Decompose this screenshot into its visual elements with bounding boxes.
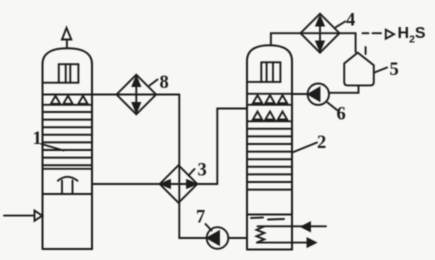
H2S outlet arrow: [386, 30, 394, 39]
column 2 tray triangles row 2: [247, 112, 292, 122]
reboiler condensate tube out: [257, 242, 308, 244]
column 1 shell (absorber): [43, 48, 93, 249]
separator bottom outlet: [329, 85, 359, 92]
svg-text:8: 8: [160, 73, 169, 93]
column 1 vent arrow: [62, 28, 71, 49]
svg-text:6: 6: [337, 105, 346, 125]
label 7: [196, 208, 212, 231]
reboiler coil (zigzag): [257, 227, 265, 243]
column 2 distributor box: [247, 62, 280, 82]
svg-text:7: 7: [196, 208, 205, 228]
pipe column1 to exchanger 3: [92, 183, 217, 185]
column 2 tray lines: [247, 129, 292, 190]
column 1 bottom section lines: [43, 168, 93, 170]
label 2: [294, 133, 327, 153]
svg-text:3: 3: [198, 161, 207, 181]
column 2 shell (regenerator): [247, 45, 292, 249]
pipe column 2 to pump 6: [292, 93, 308, 95]
column 1 distributor box: [43, 64, 79, 83]
condensate outlet arrowhead: [308, 239, 316, 247]
label 6: [328, 103, 346, 125]
heat exchanger 3 (diamond): [160, 165, 198, 203]
svg-text:4: 4: [346, 11, 355, 31]
pipe column1 to exchanger 8: [92, 94, 179, 96]
heat exchanger 8 (diamond): [117, 75, 157, 115]
steam inlet arrowhead: [302, 223, 310, 231]
feed inlet arrow: [4, 211, 42, 221]
separator 5 (pentagon vessel): [344, 53, 374, 86]
svg-text:1: 1: [33, 129, 42, 149]
svg-text:5: 5: [390, 60, 399, 80]
heat exchanger 4 (diamond): [301, 14, 340, 53]
exchanger 3 internal double arrow: [161, 180, 196, 187]
dashed vapor stub: [365, 47, 367, 54]
column 1 gas inlet cap (mushroom): [58, 177, 78, 194]
column 2 tray triangles row 1: [247, 94, 292, 105]
exchanger 8 internal double arrow: [133, 77, 140, 112]
label 5: [375, 60, 399, 80]
exchanger 4 internal double arrow: [316, 17, 323, 51]
label 1: [33, 129, 64, 151]
pipe column 2 to exchanger 4: [301, 32, 356, 34]
label 8: [150, 73, 169, 93]
column 2 overhead riser: [271, 33, 301, 45]
vertical pipe exchanger 8 to pump 7: [179, 95, 206, 239]
svg-text:2: 2: [317, 133, 326, 153]
riser pipe exchanger 3 to column 2: [217, 109, 247, 185]
pump 7: [207, 227, 247, 249]
column 1 bubble-cap tray (triangles): [43, 95, 93, 105]
pipe into separator 5: [355, 33, 357, 52]
column 1 tray lines: [43, 112, 93, 165]
reboiler steam tube in: [258, 225, 327, 227]
label 4: [336, 11, 355, 31]
dashed H2S line: [363, 32, 382, 34]
column 2 liquid level: [247, 215, 292, 220]
label 3: [189, 161, 207, 181]
pump 6: [308, 84, 329, 105]
